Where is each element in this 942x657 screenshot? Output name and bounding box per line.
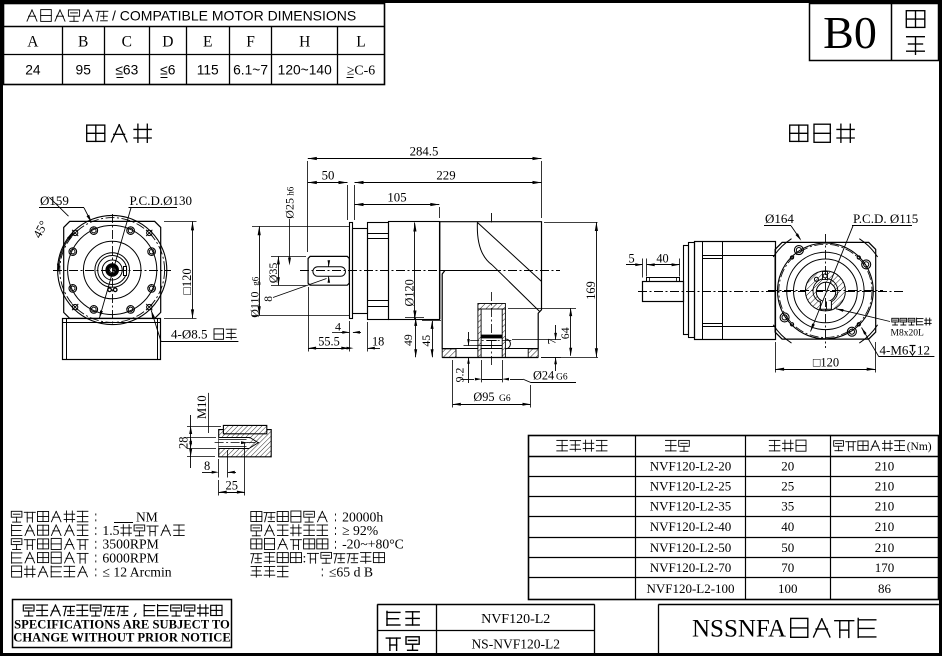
svg-text:NVF120-L2-25: NVF120-L2-25 — [650, 479, 732, 494]
output view square flange — [64, 221, 161, 318]
svg-text:L: L — [356, 34, 365, 51]
svg-text:NVF120-L2-20: NVF120-L2-20 — [650, 458, 732, 473]
svg-text:P.C.D. Ø115: P.C.D. Ø115 — [853, 211, 918, 226]
dim 50 — [308, 169, 348, 221]
svg-text:°C: °C — [389, 537, 404, 552]
svg-text:Ø25: Ø25 — [283, 198, 297, 219]
dim 45 — [419, 321, 441, 358]
compatible motor dimensions table — [3, 4, 384, 85]
4 tapped holes M6 — [790, 256, 860, 326]
detail dim 8 — [202, 450, 236, 478]
dim 284.5 — [308, 145, 542, 253]
detail dim M10 — [195, 393, 209, 433]
output view centerlines — [53, 214, 171, 326]
svg-text:(Nm): (Nm) — [907, 441, 932, 453]
svg-text:≤ 12 Arcmin: ≤ 12 Arcmin — [102, 564, 171, 579]
output shaft side view — [308, 256, 349, 285]
company name NSSNFA — [692, 616, 876, 643]
svg-text:45: 45 — [419, 335, 433, 347]
svg-text:□120: □120 — [813, 355, 839, 369]
svg-text:B: B — [78, 34, 88, 51]
model selection table — [528, 435, 939, 599]
dimension square 120 output — [164, 221, 197, 318]
svg-text:NM: NM — [136, 509, 158, 524]
svg-text:70: 70 — [781, 560, 794, 575]
model type label — [387, 611, 550, 627]
output face circle — [83, 241, 141, 299]
dim 55.5 — [308, 287, 349, 352]
svg-text:8: 8 — [204, 459, 210, 473]
input view square flange — [775, 242, 876, 339]
4 mounting holes d8.5 — [72, 230, 152, 310]
dim d95 G6 — [453, 360, 531, 408]
dim d110 g6 — [247, 226, 349, 317]
title output end — [87, 124, 152, 142]
svg-text:h6: h6 — [286, 186, 296, 196]
svg-text:210: 210 — [875, 458, 895, 473]
svg-text:95: 95 — [76, 63, 92, 78]
svg-text:210: 210 — [875, 479, 895, 494]
output shaft spline hub — [106, 264, 119, 277]
svg-text:Ø24: Ø24 — [533, 369, 554, 383]
svg-text:105: 105 — [387, 191, 406, 205]
svg-text:NS-NVF120-L2: NS-NVF120-L2 — [471, 636, 560, 651]
dim PCD115 label — [811, 211, 919, 332]
svg-text:≤6: ≤6 — [160, 63, 176, 78]
dim d24 G6 — [461, 360, 576, 383]
dim d25 h6 — [283, 186, 297, 265]
label 4-M6 depth 12 — [862, 328, 935, 358]
svg-text:12: 12 — [917, 343, 930, 358]
oil hole marks — [108, 288, 117, 292]
dim 40 input — [647, 251, 680, 276]
input bore keyway — [820, 301, 831, 309]
8 socket head screws — [69, 227, 155, 313]
svg-text:7: 7 — [545, 338, 559, 344]
svg-text:284.5: 284.5 — [410, 145, 439, 159]
svg-text:120~140: 120~140 — [278, 63, 332, 78]
input PCD115 centerline circle — [779, 244, 872, 337]
svg-text:F: F — [246, 34, 255, 51]
shaft end detail section M10 — [215, 425, 272, 456]
selection table headers — [557, 440, 932, 453]
svg-text:100: 100 — [778, 581, 798, 596]
input coupling hatched section — [805, 271, 845, 311]
revision box B0 — [810, 3, 939, 60]
svg-text:115: 115 — [197, 63, 219, 78]
svg-text:Ø95: Ø95 — [473, 390, 494, 404]
svg-text:4: 4 — [335, 319, 341, 333]
output center rings — [95, 253, 130, 288]
svg-text:20: 20 — [781, 458, 794, 473]
svg-text:E: E — [203, 34, 212, 51]
detail dim 25 — [219, 441, 249, 495]
svg-text:Ø159: Ø159 — [40, 193, 69, 208]
shaft keyway slot — [313, 267, 346, 277]
bore centerlines — [470, 213, 514, 367]
4 input screws M8 — [780, 246, 871, 337]
body corner diagonal chamfer — [477, 222, 541, 311]
svg-text:≤63: ≤63 — [115, 63, 138, 78]
shaft centerline middle view — [300, 270, 560, 272]
output boss circle — [68, 225, 157, 314]
input axis centerline — [638, 291, 905, 293]
dim 64 — [508, 308, 576, 356]
svg-text:H: H — [299, 34, 310, 51]
specification text right column — [251, 509, 404, 579]
svg-text:≥C-6: ≥C-6 — [347, 63, 375, 78]
specification text left column — [11, 509, 184, 579]
selection table model rows — [646, 458, 894, 595]
svg-text:229: 229 — [436, 169, 455, 183]
dim 229 — [355, 169, 542, 221]
dim 7 — [512, 325, 561, 371]
input shaft profile — [643, 282, 684, 302]
input flange plate thin — [350, 223, 353, 319]
svg-text:40: 40 — [781, 519, 794, 534]
svg-text:35: 35 — [781, 499, 794, 514]
svg-text:g6: g6 — [250, 276, 260, 286]
input view centerlines — [768, 234, 883, 348]
svg-text:6000RPM: 6000RPM — [102, 550, 158, 565]
svg-text:55.5: 55.5 — [318, 334, 340, 348]
disclaimer text — [13, 605, 231, 645]
svg-text:Ø110: Ø110 — [247, 291, 261, 317]
dim 18 — [347, 322, 385, 352]
bolt circle PCD130 centerline — [60, 218, 165, 323]
svg-text:86: 86 — [878, 581, 892, 596]
table header: compatible motor dimensions — [27, 7, 356, 23]
dim 105 — [355, 191, 440, 219]
svg-text:25: 25 — [226, 479, 239, 493]
svg-text:210: 210 — [875, 540, 895, 555]
label hex socket screw M8x20L — [836, 309, 931, 339]
dim square 120 input — [775, 342, 876, 373]
svg-text:C: C — [122, 34, 132, 51]
svg-text:NVF120-L2-40: NVF120-L2-40 — [650, 519, 732, 534]
svg-text:Ø35: Ø35 — [266, 263, 280, 284]
svg-text:210: 210 — [875, 499, 895, 514]
hub keyway mark — [124, 267, 127, 276]
svg-text:5: 5 — [629, 251, 635, 265]
svg-text:G6: G6 — [499, 394, 511, 404]
dim 4 — [332, 319, 361, 333]
disclaimer box — [13, 600, 232, 648]
dimension d159 label — [39, 193, 92, 223]
svg-text:64: 64 — [558, 327, 572, 339]
label 4-d8.5 through holes — [151, 310, 238, 342]
svg-text:D: D — [162, 34, 173, 51]
svg-text:8: 8 — [263, 296, 275, 302]
input housing side view — [695, 241, 776, 339]
dim d120 — [402, 223, 416, 320]
svg-text:50: 50 — [781, 540, 794, 555]
table values row — [25, 63, 375, 78]
svg-text:50: 50 — [322, 169, 335, 183]
svg-text:NSSNFA: NSSNFA — [692, 616, 786, 643]
svg-text:NVF120-L2-70: NVF120-L2-70 — [650, 560, 732, 575]
dimension 45 degrees — [30, 197, 73, 271]
dim 5 input — [626, 251, 643, 277]
housing corner arcs d164 — [773, 239, 877, 343]
svg-text:NVF120-L2-50: NVF120-L2-50 — [650, 540, 732, 555]
dim 169 — [541, 222, 598, 358]
svg-text:Ø164: Ø164 — [765, 211, 794, 226]
dim 9.2 — [452, 332, 491, 383]
svg-text:4-M6: 4-M6 — [880, 343, 909, 358]
title input end — [790, 124, 855, 142]
svg-text:170: 170 — [875, 560, 895, 575]
input face circles — [778, 243, 874, 339]
revision label ban-ben — [906, 11, 925, 55]
svg-text:28: 28 — [177, 437, 191, 450]
svg-text:49: 49 — [401, 334, 415, 346]
svg-text:M10: M10 — [195, 395, 209, 419]
input flange plate 2 — [353, 229, 368, 314]
input adapter plate — [684, 243, 695, 338]
svg-text:18: 18 — [372, 334, 384, 348]
main gearbox body — [440, 222, 542, 349]
svg-text:G6: G6 — [556, 373, 568, 383]
bell housing section — [368, 223, 389, 320]
svg-text:6.1~7: 6.1~7 — [233, 63, 268, 78]
dimension PCD130 label — [99, 193, 192, 319]
dim d164 label — [764, 211, 801, 241]
svg-text:NVF120-L2: NVF120-L2 — [481, 612, 550, 627]
dim d35 — [266, 256, 306, 285]
svg-text:Ø120: Ø120 — [402, 279, 416, 306]
svg-text:25: 25 — [781, 479, 794, 494]
output flange circle d159 — [58, 215, 167, 324]
input shaft key — [647, 278, 680, 282]
svg-text:9.2: 9.2 — [452, 368, 466, 383]
svg-text::: : — [303, 550, 307, 565]
dim 49 — [401, 318, 424, 358]
detail dim 28 — [177, 415, 222, 468]
svg-text:210: 210 — [875, 519, 895, 534]
svg-text:CHANGE WITHOUT PRIOR NOTICE: CHANGE WITHOUT PRIOR NOTICE — [13, 631, 231, 645]
svg-text:/ COMPATIBLE MOTOR DIMENSIONS: / COMPATIBLE MOTOR DIMENSIONS — [112, 7, 356, 23]
svg-text:NVF120-L2-100: NVF120-L2-100 — [646, 581, 734, 596]
svg-text:40: 40 — [656, 251, 668, 265]
svg-text:M8x20L: M8x20L — [891, 329, 924, 339]
svg-text:≤65 d B: ≤65 d B — [329, 564, 373, 579]
coupling clamp slit — [814, 272, 827, 282]
svg-text:24: 24 — [25, 63, 41, 78]
output bore tube section — [478, 304, 511, 358]
svg-text:□120: □120 — [180, 268, 194, 294]
svg-text:B0: B0 — [823, 7, 877, 58]
title block frame — [377, 604, 939, 654]
output view base housing — [63, 318, 161, 359]
svg-text:SPECIFICATIONS ARE SUBJECT TO: SPECIFICATIONS ARE SUBJECT TO — [14, 617, 230, 631]
svg-text:169: 169 — [584, 281, 598, 299]
drawing number label — [386, 636, 560, 651]
svg-text:P.C.D.Ø130: P.C.D.Ø130 — [130, 193, 193, 208]
table letters row — [27, 34, 365, 51]
gear unit cylinder section — [389, 222, 440, 320]
dim 8 keyway — [263, 260, 330, 302]
svg-text:4-Ø8.5: 4-Ø8.5 — [171, 327, 207, 342]
svg-text:-20~+80: -20~+80 — [342, 537, 389, 552]
svg-text:A: A — [27, 34, 39, 51]
svg-text:NVF120-L2-35: NVF120-L2-35 — [650, 499, 732, 514]
bottom mounting plate — [442, 349, 538, 358]
